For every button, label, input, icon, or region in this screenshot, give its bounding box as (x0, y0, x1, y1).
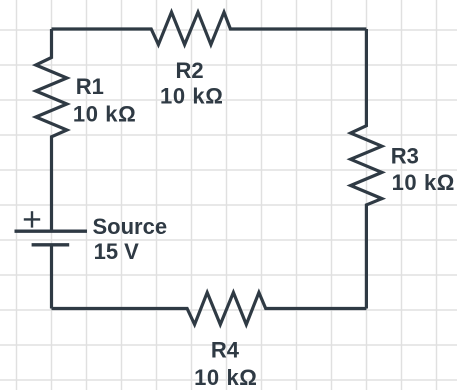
svg-text:Source: Source (93, 214, 168, 239)
svg-text:R2: R2 (176, 58, 204, 83)
wire battery bottom lead (50, 245, 53, 309)
svg-text:R1: R1 (76, 74, 104, 99)
wire right rail with resistor R3 (351, 29, 382, 309)
wire top rail with resistor R2 (52, 12, 367, 44)
svg-text:10 kΩ: 10 kΩ (73, 102, 136, 127)
wire bottom rail with resistor R4 (52, 293, 367, 325)
svg-text:10 kΩ: 10 kΩ (392, 170, 455, 195)
battery V1 short plate (negative) (32, 243, 70, 246)
wire left rail with resistor R1 (36, 29, 67, 231)
svg-text:10 kΩ: 10 kΩ (160, 84, 223, 109)
svg-text:R3: R3 (391, 143, 419, 168)
battery polarity plus sign (24, 211, 40, 227)
battery V1 long plate (positive) (15, 229, 88, 232)
svg-text:15 V: 15 V (94, 239, 140, 264)
svg-text:R4: R4 (211, 338, 240, 363)
svg-text:10 kΩ: 10 kΩ (194, 365, 257, 390)
